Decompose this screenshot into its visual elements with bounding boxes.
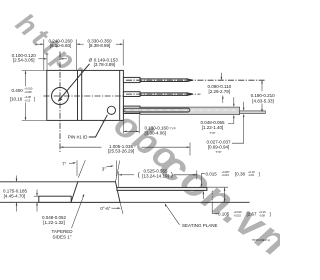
svg-text:]: ] bbox=[34, 97, 35, 102]
dim 0.090-0.110 arrow upper bbox=[220, 73, 222, 80]
3 deg extension lines bbox=[116, 161, 118, 177]
dim 0.330 arrow right bbox=[116, 43, 123, 45]
lead 2 narrow bbox=[140, 93, 187, 96]
0.525 dim line right bbox=[174, 174, 196, 176]
dim 1.005 line left segment bbox=[61, 146, 102, 148]
svg-text:PIN #1 ID: PIN #1 ID bbox=[68, 135, 88, 140]
7 deg leader arrow bbox=[69, 162, 75, 165]
svg-text:0.190-0.210: 0.190-0.210 bbox=[251, 93, 276, 98]
dim 1.005-1.035 right bar bbox=[189, 143, 191, 156]
svg-text:0.400: 0.400 bbox=[12, 88, 24, 93]
svg-text:[3.30-4.06]: [3.30-4.06] bbox=[145, 130, 167, 135]
svg-text:[2.67: [2.67 bbox=[247, 212, 258, 217]
svg-text:0.015: 0.015 bbox=[206, 171, 218, 176]
svg-text:SIDES 1°: SIDES 1° bbox=[52, 234, 71, 239]
dim 0.048-0.052 lower arrow bbox=[36, 203, 38, 212]
dim 0.027-0.037 leader bbox=[232, 115, 244, 144]
dim extension bar mid bbox=[75, 39, 77, 70]
svg-text:-0.03: -0.03 bbox=[248, 173, 254, 177]
0.105 dim vertical bbox=[224, 188, 226, 202]
side view body trapezoid bbox=[71, 182, 120, 203]
lead 3 edge-view band narrow tail bbox=[240, 111, 266, 114]
svg-text:[4.83-5.33]: [4.83-5.33] bbox=[252, 99, 274, 104]
dim 0.190-0.210 line upper bbox=[261, 81, 263, 92]
0.400 dim top extension bbox=[22, 70, 47, 72]
svg-text:[1.22-1.40]: [1.22-1.40] bbox=[202, 125, 224, 130]
svg-text:SEATING PLANE: SEATING PLANE bbox=[182, 223, 218, 228]
dim 0.130-0.160 body-right extension bbox=[122, 121, 124, 133]
svg-text:[3.78-3.89]: [3.78-3.89] bbox=[94, 62, 116, 67]
lead 3 white centerline dash-dot bbox=[126, 109, 236, 111]
lead 3 shoulder bbox=[123, 106, 140, 113]
dim 0.330-0.350 extension bar right bbox=[122, 39, 124, 65]
0.400 dim line lower bbox=[25, 103, 27, 120]
svg-text:[0.38: [0.38 bbox=[235, 171, 246, 176]
pin 1 id leader bbox=[89, 115, 108, 137]
body horizontal centerline bbox=[44, 95, 126, 97]
0.400 dim bottom extension bbox=[22, 119, 47, 121]
dim 0.048-0.052 upper arrow bbox=[36, 190, 38, 196]
tab top tick extension bbox=[34, 195, 39, 197]
svg-text:0.105: 0.105 bbox=[218, 212, 230, 217]
svg-text:[10.16: [10.16 bbox=[10, 97, 23, 102]
lead-top extension to 0.105 dim bbox=[207, 186, 228, 188]
svg-text:-0.13: -0.13 bbox=[24, 98, 30, 102]
svg-text:TAPERED: TAPERED bbox=[52, 229, 74, 234]
side view tab bbox=[39, 196, 71, 202]
seating plane leader bbox=[166, 205, 180, 225]
svg-text:-0.38: -0.38 bbox=[259, 213, 265, 217]
dim 0.027-0.037 upper arrow bbox=[243, 102, 245, 110]
3 deg leader arrow bbox=[107, 165, 113, 168]
svg-text:7°: 7° bbox=[62, 162, 67, 167]
0.525 dim right bar bbox=[196, 171, 198, 180]
0.525 dim left bar bbox=[118, 172, 120, 187]
0.105 leader elbow bbox=[212, 202, 219, 213]
dim 1.005 line right segment bbox=[142, 146, 190, 148]
dim 0.190-0.210 line lower bbox=[261, 104, 263, 112]
plastic step line near right edge bbox=[119, 71, 121, 121]
svg-text:[13.24-14.19]: [13.24-14.19] bbox=[142, 173, 169, 178]
dim 0.100 arrow right bbox=[61, 58, 67, 60]
svg-text:-0.001: -0.001 bbox=[222, 173, 230, 177]
svg-text:[1.22-1.32]: [1.22-1.32] bbox=[43, 220, 65, 225]
dim 0.100-0.120 body-left extension bbox=[46, 53, 48, 70]
svg-text:TYP: TYP bbox=[210, 131, 216, 135]
side view lead bbox=[117, 187, 207, 190]
0-6 deg arrow bbox=[112, 207, 120, 209]
lead 3 front lead pill bbox=[124, 108, 190, 112]
dim 0.100 arrow left bbox=[39, 58, 47, 60]
svg-text:[25.53-26.29]: [25.53-26.29] bbox=[108, 149, 135, 154]
svg-text:[8.38-8.89]: [8.38-8.89] bbox=[89, 43, 111, 48]
dim 0.240 arrow left bbox=[36, 43, 44, 45]
svg-text:]: ] bbox=[259, 171, 260, 176]
svg-text:[6.10-6.60]: [6.10-6.60] bbox=[50, 43, 72, 48]
svg-text:3°: 3° bbox=[102, 166, 107, 171]
side view top extension + body top edge bbox=[0, 181, 116, 183]
dim 0.090-0.110 arrow lower bbox=[222, 96, 224, 103]
lead 1 tip bbox=[187, 79, 193, 82]
svg-text:[2.29-2.79]: [2.29-2.79] bbox=[209, 89, 231, 94]
dim 0.240-0.260 extension bar left bbox=[43, 39, 45, 70]
lead 1 centerline dash-dot bbox=[126, 79, 266, 81]
7 deg extension lines bbox=[76, 160, 78, 176]
0.525 dim line left bbox=[119, 174, 134, 176]
lead 1 narrow bbox=[140, 79, 187, 82]
svg-text:): ) bbox=[171, 172, 173, 179]
svg-text:[2.54-3.05]: [2.54-3.05] bbox=[13, 57, 35, 62]
0-6 deg extension line bbox=[120, 202, 123, 214]
dim 0.048-0.055 upper arrow bbox=[233, 97, 235, 106]
hole diameter leader line bbox=[59, 64, 90, 101]
tab/plastic boundary line 2 bbox=[81, 71, 83, 121]
tapered sides leader bbox=[72, 195, 85, 228]
0.400 dim line upper bbox=[25, 71, 27, 86]
pin 1 id circle bbox=[107, 106, 115, 114]
svg-text:TYP: TYP bbox=[216, 150, 222, 154]
dim 0.130 line bbox=[124, 130, 139, 132]
svg-text:-0.005: -0.005 bbox=[24, 90, 32, 94]
lead 2 centerline dash-dot bbox=[126, 93, 201, 95]
mounting hole bbox=[52, 88, 69, 105]
dim 0.048-0.055 leader bbox=[228, 116, 234, 124]
lead 3 edge-view band wide bbox=[140, 107, 240, 115]
hole vertical centerline bbox=[59, 52, 61, 153]
dim arrow mid bbox=[77, 43, 84, 45]
lead 1 shoulder bbox=[123, 77, 140, 82]
dim 0.175 upper arrow bbox=[16, 176, 18, 182]
svg-text:0°-6°: 0°-6° bbox=[100, 206, 110, 211]
dim 0.130-0.160 shoulder extension bbox=[138, 115, 140, 134]
svg-text:[0.69-0.94]: [0.69-0.94] bbox=[208, 144, 230, 149]
tab/plastic boundary line 1 bbox=[77, 71, 79, 121]
side view seating plane line bbox=[0, 201, 250, 203]
dim 0.175 lower arrow bbox=[16, 203, 18, 212]
lead 2 shoulder bbox=[123, 92, 140, 97]
front view body outline bbox=[47, 70, 124, 120]
svg-text:]: ] bbox=[270, 212, 271, 217]
0.015 bracket bbox=[202, 174, 205, 186]
below-lead up arrow bbox=[202, 192, 204, 199]
svg-text:7038 (REV L): 7038 (REV L) bbox=[252, 238, 270, 242]
lead 2 tip bbox=[187, 93, 193, 96]
dashed drop line at lead end bbox=[211, 191, 213, 203]
svg-text:-0.015: -0.015 bbox=[234, 213, 242, 217]
svg-text:[4.45-4.70]: [4.45-4.70] bbox=[4, 194, 26, 199]
